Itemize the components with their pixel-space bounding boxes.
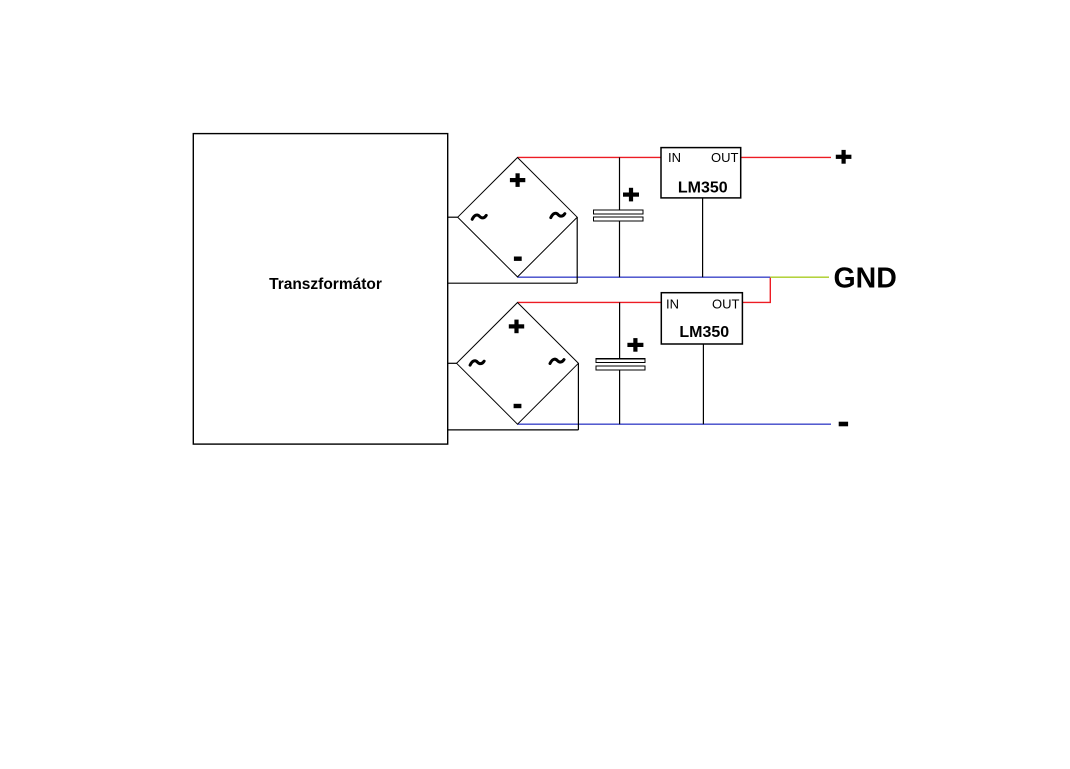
svg-text:IN: IN xyxy=(668,150,681,165)
svg-text:GND: GND xyxy=(834,262,897,294)
svg-text:IN: IN xyxy=(666,297,679,312)
svg-text:LM350: LM350 xyxy=(679,324,729,341)
svg-text:OUT: OUT xyxy=(711,150,739,165)
svg-text:LM350: LM350 xyxy=(678,179,728,196)
svg-text:Transzformátor: Transzformátor xyxy=(269,276,382,293)
svg-text:OUT: OUT xyxy=(712,297,740,312)
